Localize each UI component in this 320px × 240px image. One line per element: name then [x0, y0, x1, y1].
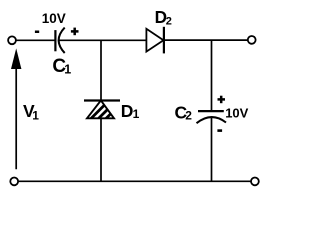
C2 minus polarity mark [217, 129, 222, 132]
svg-text:10V: 10V [42, 11, 66, 26]
wire junction drop to D1 [100, 40, 102, 100]
svg-text:2: 2 [185, 108, 192, 122]
capacitor C2 [197, 111, 227, 123]
svg-text:2: 2 [166, 16, 172, 28]
wire below D1 to bottom rail [100, 118, 102, 181]
zener diode D1 [84, 98, 127, 124]
terminal top-left input + [8, 36, 16, 44]
diode D2 [146, 27, 164, 54]
terminal top-right output + [248, 36, 256, 44]
wire below C2 to bottom rail [211, 117, 213, 181]
svg-text:D: D [121, 101, 134, 121]
wire top rail left segment [16, 39, 55, 41]
wire top rail middle segment [59, 39, 147, 41]
terminal bottom-left input - [10, 178, 18, 186]
label V1 [23, 101, 39, 122]
label D2 [155, 7, 172, 28]
label C2 [175, 102, 193, 122]
wire top rail right segment [164, 39, 248, 41]
label C1 [52, 56, 71, 77]
svg-text:10V: 10V [225, 106, 248, 121]
C1 plus polarity mark [71, 28, 79, 36]
svg-text:1: 1 [64, 62, 71, 76]
V1 source arrow [11, 48, 21, 169]
C1 minus polarity mark [35, 31, 39, 34]
wire junction drop to C2 [211, 40, 213, 110]
label D1 [121, 101, 140, 121]
svg-text:1: 1 [32, 108, 39, 122]
svg-text:1: 1 [133, 107, 140, 121]
wire bottom rail [18, 180, 251, 182]
capacitor C1 [55, 28, 64, 53]
C2 plus polarity mark [218, 96, 226, 104]
terminal bottom-right output - [251, 178, 259, 186]
